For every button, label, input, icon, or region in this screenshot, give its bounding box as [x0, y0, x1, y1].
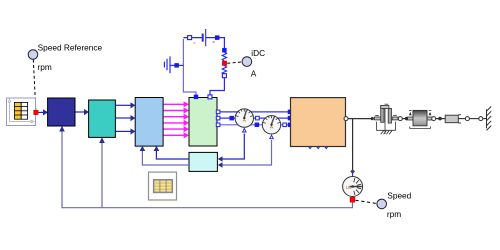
svg-text:Speed Reference: Speed Reference: [38, 43, 103, 53]
node: bottom of resistor (open square): [222, 74, 226, 78]
svg-text:rpm: rpm: [387, 209, 401, 219]
wire: firing signal 2 (magenta): [164, 107, 190, 113]
sensor: speed sensor gauge: [343, 173, 363, 199]
block: current controller (teal): [89, 100, 116, 137]
node: filled square before gauge2: [255, 123, 259, 127]
sensor: speed sensor connector diamond: [350, 169, 355, 174]
block: speed reference time table: [7, 98, 36, 126]
node: machine pin squares (filled): [288, 110, 292, 127]
svg-text:U6: U6: [346, 185, 352, 190]
wire: firing signal 1 (magenta): [164, 101, 190, 107]
node: inertia in circle (filled): [405, 117, 409, 121]
node: converter out pins (open squares): [216, 110, 220, 127]
arrowhead up into modulator (2): [140, 146, 146, 151]
component: gearbox with support: [375, 104, 399, 134]
wire: armature line 1 (blue): [217, 111, 290, 113]
wire: firing signal 4 (magenta): [164, 120, 190, 126]
component: inertia / brake: [408, 110, 433, 128]
block: PWM modulator (light blue): [135, 98, 163, 147]
block: DC machine (orange): [291, 98, 346, 147]
node: iDC output circle: [242, 48, 265, 79]
wire: shaft damper to fixed: [469, 118, 478, 120]
wire: to wall: [483, 118, 487, 120]
node: filled square before voltage sensor: [230, 116, 234, 120]
wire: gauge1 output to measurement box: [222, 134, 244, 160]
wire: speed feedback bus: [62, 128, 353, 208]
resistor R1 (zigzag): [222, 66, 226, 75]
node: table output (red): [34, 110, 38, 114]
block: speed controller: [48, 98, 75, 126]
node: converter DC minus pin (open square): [208, 95, 212, 99]
node: current tap (red): [222, 61, 227, 66]
node: Speed output circle: [377, 191, 412, 220]
wire: shaft machine to gearbox: [348, 118, 372, 120]
wire: gauge2 output to measurement box: [222, 140, 272, 165]
gauge1 output connector (open triangle): [243, 129, 247, 133]
wire arrowhead into speed controller: [59, 126, 65, 132]
wire: dashed tap to iDC connector: [227, 62, 241, 63]
wire: adapter to modulator feedback 2: [142, 151, 189, 166]
wire: armature line 3 (lavender): [217, 124, 290, 126]
wire: battery loop top and sides (blue): [183, 38, 224, 96]
wire: speed controller to limiter: [75, 109, 89, 115]
inductor L1 (zigzag): [222, 52, 226, 61]
arrowhead up into modulator (1): [154, 146, 160, 151]
component: fixed support (wall): [487, 106, 492, 130]
svg-text:Speed: Speed: [387, 191, 411, 201]
block: converter (light green): [189, 98, 217, 147]
wire: firing signal 5 (magenta): [164, 126, 190, 132]
wire: teal to modulator arrow 1: [116, 102, 136, 108]
node: top of inductor (filled square): [222, 48, 226, 52]
arrowhead into measurement box right (from gauge1): [218, 156, 223, 162]
node: speed reference tag circle: [28, 43, 102, 72]
wire: teal to modulator arrow 3: [116, 128, 136, 134]
node: battery positive junction (filled square): [215, 36, 219, 40]
svg-text:A: A: [251, 69, 257, 79]
sensor: gauge 1 (voltage): [235, 109, 253, 127]
shaft: machine flange circle: [344, 117, 348, 121]
node: gearbox out circle (open): [398, 117, 402, 121]
component: load damper: [445, 115, 465, 123]
sensor: gauge 2 (current): [262, 116, 280, 134]
node: fixed flange circle (open): [479, 117, 483, 121]
wire: dashed to Speed connector: [356, 200, 377, 203]
machine bottom pins (three v marks): [309, 147, 328, 149]
node: open square right of gauge2: [283, 123, 287, 127]
wire: table to speed controller: [38, 109, 48, 115]
wire: firing signal 3 (magenta): [164, 114, 190, 120]
ground G1: [164, 56, 183, 73]
wire: teal to modulator arrow 2: [116, 115, 136, 121]
node: inertia out circle (open): [432, 117, 436, 121]
arrowhead into measurement box right (from gauge2): [218, 162, 223, 168]
wire: shaft inertia to damper: [436, 118, 446, 120]
node: damper out circle (open): [465, 117, 469, 121]
svg-text:rpm: rpm: [38, 62, 52, 72]
gauge2 output connector (open triangle): [270, 135, 274, 139]
node: battery negative pin (open square): [188, 36, 192, 40]
wire: armature line 2 (blue): [217, 117, 290, 119]
node: converter DC plus pin (filled square): [194, 95, 198, 99]
wire: dashed connector tag to table output: [33, 60, 36, 110]
block: lookup table (gray box): [149, 172, 177, 200]
node: shaft junction (filled circle): [371, 117, 374, 120]
node: damper in circle (filled): [438, 117, 442, 121]
svg-text:iDC: iDC: [251, 48, 265, 58]
node: ground junction (filled square): [175, 63, 179, 67]
block: measurement adapter (pale cyan): [189, 152, 217, 171]
wire: firing signal 6 (magenta): [164, 132, 190, 138]
wire: shaft branch down to speed sensor: [352, 119, 354, 170]
wire arrowhead into current limiter: [99, 137, 105, 143]
node: open square right of gauge1: [256, 116, 260, 120]
battery V1 plates: [193, 29, 215, 46]
wire: adapter to modulator feedback 1: [156, 151, 189, 160]
node: speed sensor output (red): [350, 197, 355, 202]
wire: shaft gearbox to inertia: [402, 118, 412, 120]
